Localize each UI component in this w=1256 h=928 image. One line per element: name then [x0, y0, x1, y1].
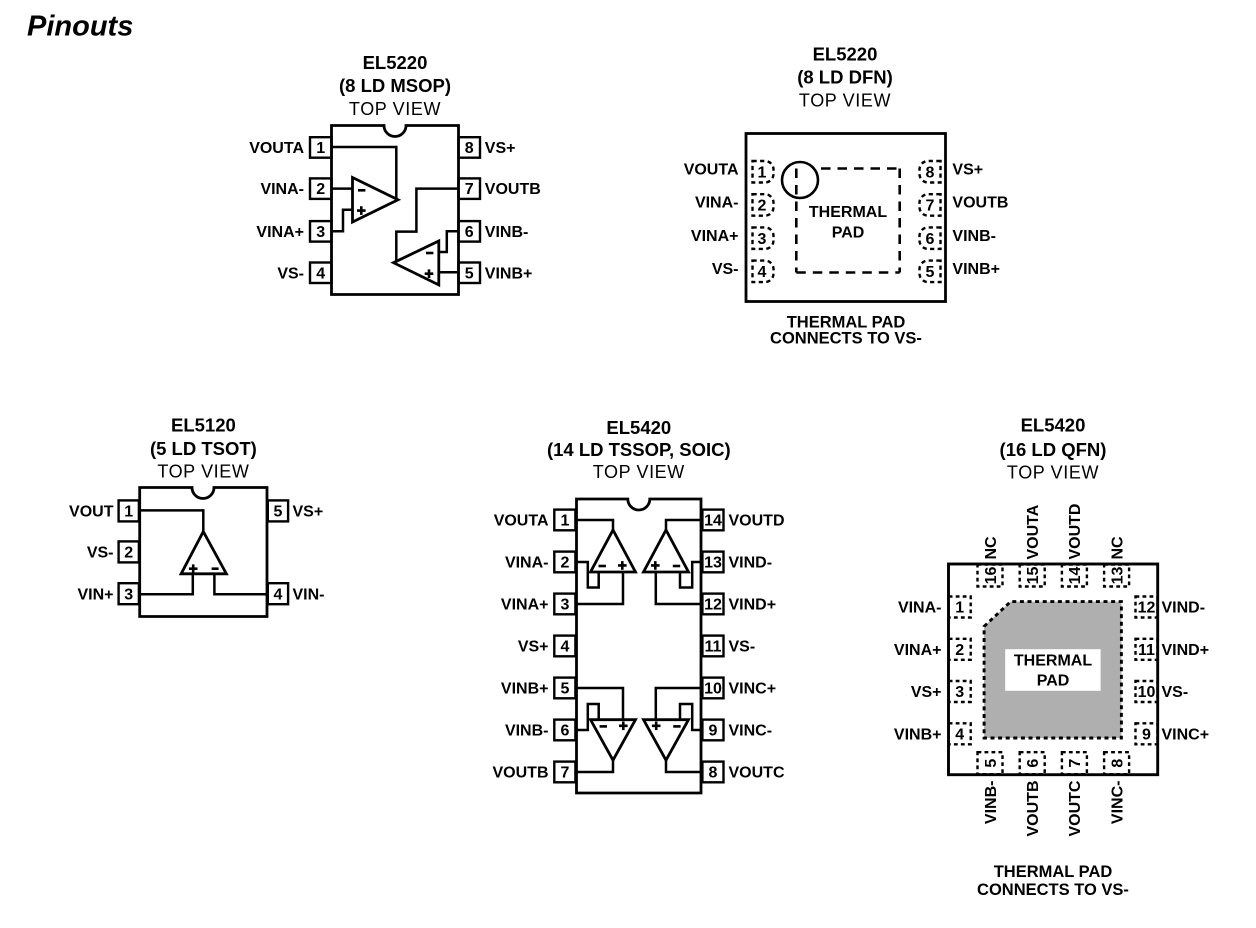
wire pin3 to op-amp A non-inverting input (TSSOP) [577, 573, 624, 604]
wire pin1 to op-amp A output [332, 147, 397, 198]
package U5 EL5420 QFN body [949, 564, 1158, 775]
pin 1 box (TSSOP) [554, 510, 575, 531]
svg-text:VINB+: VINB+ [952, 261, 1000, 278]
pin 6 pad (QFN) [1020, 752, 1045, 774]
svg-text:1: 1 [560, 513, 569, 530]
svg-text:VS-: VS- [729, 639, 756, 656]
svg-text:13: 13 [1109, 567, 1126, 585]
wire pin7 to op-amp B output (TSSOP) [577, 759, 614, 772]
svg-text:VIND-: VIND- [1162, 600, 1206, 617]
pin 2 pad (QFN) [949, 639, 971, 660]
svg-text:VINA+: VINA+ [894, 642, 942, 659]
svg-text:EL5120: EL5120 [171, 415, 236, 436]
svg-text:PAD: PAD [1037, 673, 1070, 690]
svg-text:VINA+: VINA+ [691, 228, 739, 245]
svg-text:8: 8 [926, 165, 935, 182]
svg-text:VS-: VS- [712, 261, 739, 278]
pin 10 box (TSSOP) [702, 678, 723, 699]
pin 4 box (TSSOP) [554, 636, 575, 657]
package U1 EL5220 MSOP body with notch [332, 126, 459, 295]
thermal pad outline bottom edge (DFN) [796, 271, 899, 274]
svg-text:14: 14 [704, 513, 722, 530]
svg-text:EL5420: EL5420 [606, 417, 671, 438]
svg-text:5: 5 [273, 504, 282, 521]
pin 3 box (MSOP) [310, 221, 332, 242]
svg-text:9: 9 [709, 723, 718, 740]
svg-text:1: 1 [955, 600, 964, 617]
svg-text:11: 11 [1138, 642, 1155, 659]
svg-text:2: 2 [316, 181, 325, 198]
svg-text:NC: NC [1109, 536, 1126, 560]
wire pin6 to op-amp B inverting input (TSSOP) [577, 704, 599, 730]
svg-text:VINB-: VINB- [505, 723, 549, 740]
wire pin10 to op-amp C non-inverting input (TSSOP) [656, 688, 701, 719]
wire pin9 to op-amp C inverting input (TSSOP) [680, 704, 701, 730]
svg-text:VOUTD: VOUTD [1067, 504, 1084, 560]
svg-text:VOUTA: VOUTA [249, 140, 304, 157]
op-amp A minus symbol (TSSOP) [599, 565, 606, 568]
svg-text:4: 4 [273, 586, 282, 603]
svg-text:4: 4 [560, 639, 569, 656]
op-amp B triangle (TSSOP) [591, 720, 636, 761]
svg-text:9: 9 [1142, 726, 1151, 743]
wire pin8 to op-amp C output (TSSOP) [666, 759, 701, 772]
pin 8 box (MSOP) [459, 137, 481, 158]
op-amp D plus symbol (TSSOP) [651, 561, 660, 570]
svg-text:8: 8 [465, 140, 474, 157]
svg-text:TOP VIEW: TOP VIEW [799, 91, 891, 111]
pin 10 pad (QFN) [1136, 681, 1158, 702]
svg-text:VS+: VS+ [293, 504, 324, 521]
svg-text:VOUTA: VOUTA [494, 513, 549, 530]
svg-text:VINA-: VINA- [695, 195, 739, 212]
svg-text:1: 1 [758, 165, 767, 182]
pin 9 box (TSSOP) [702, 720, 723, 741]
thermal pad outline left edge (DFN) [795, 169, 798, 273]
package U3 EL5120 TSOT body with notch [140, 488, 267, 617]
op-amp A triangle (TSSOP) [591, 530, 636, 572]
svg-text:VIND+: VIND+ [1162, 642, 1210, 659]
pin 5 box (MSOP) [459, 263, 481, 284]
svg-text:14: 14 [1067, 567, 1084, 585]
svg-text:VINA-: VINA- [505, 555, 549, 572]
thermal pad label box (QFN) [1005, 649, 1100, 691]
svg-text:VINC-: VINC- [1109, 781, 1126, 825]
svg-text:EL5220: EL5220 [813, 44, 878, 65]
pin 5 pad (DFN) [920, 261, 941, 283]
svg-text:10: 10 [1138, 684, 1156, 701]
svg-text:NC: NC [983, 536, 1000, 560]
pin 2 box (MSOP) [310, 178, 332, 199]
svg-text:EL5420: EL5420 [1021, 415, 1086, 436]
svg-text:THERMAL PAD: THERMAL PAD [994, 863, 1113, 881]
svg-text:EL5220: EL5220 [363, 52, 428, 73]
svg-text:CONNECTS TO VS-: CONNECTS TO VS- [770, 330, 922, 348]
op-amp triangle (TSOT) [181, 532, 226, 574]
svg-text:VOUTC: VOUTC [1067, 780, 1084, 836]
svg-text:VINB+: VINB+ [894, 726, 942, 743]
svg-text:PAD: PAD [832, 224, 865, 241]
pin 11 pad (QFN) [1136, 639, 1158, 660]
svg-text:VIN-: VIN- [293, 586, 325, 603]
pin 15 pad (QFN) [1020, 565, 1045, 587]
pin 1 pad (QFN) [949, 597, 971, 618]
svg-text:VOUTC: VOUTC [729, 765, 785, 782]
svg-text:VOUTD: VOUTD [729, 513, 785, 530]
op-amp D triangle (TSSOP) [644, 530, 689, 572]
pin 16 pad (QFN) [978, 565, 1003, 587]
svg-text:6: 6 [926, 231, 935, 248]
svg-text:VINB-: VINB- [485, 224, 529, 241]
svg-text:VS-: VS- [277, 265, 304, 282]
svg-text:7: 7 [465, 181, 474, 198]
pin 6 box (TSSOP) [554, 720, 575, 741]
svg-text:TOP VIEW: TOP VIEW [593, 462, 685, 482]
svg-text:TOP VIEW: TOP VIEW [1007, 463, 1099, 483]
svg-text:7: 7 [1067, 759, 1084, 768]
wire pin5 to op-amp B non-inverting input (TSSOP) [577, 688, 624, 719]
svg-text:VINB-: VINB- [983, 781, 1000, 825]
op-amp D minus symbol (TSSOP) [673, 565, 680, 568]
pin 1 indicator circle (DFN) [782, 162, 818, 198]
svg-text:VS+: VS+ [485, 140, 516, 157]
svg-text:VS-: VS- [1162, 684, 1189, 701]
pin 3 box (TSSOP) [554, 594, 575, 615]
op-amp A minus symbol [358, 189, 365, 192]
svg-text:6: 6 [465, 224, 474, 241]
svg-text:VINB+: VINB+ [501, 681, 549, 698]
svg-text:4: 4 [955, 726, 964, 743]
svg-text:VS+: VS+ [952, 162, 983, 179]
pin 13 pad (QFN) [1104, 565, 1129, 587]
svg-text:VINA+: VINA+ [256, 224, 304, 241]
wire pin13 to op-amp D inverting input (TSSOP) [680, 562, 701, 588]
pin 12 box (TSSOP) [702, 594, 723, 615]
svg-text:VOUTA: VOUTA [1025, 504, 1042, 559]
svg-text:VOUT: VOUT [69, 504, 114, 521]
svg-text:5: 5 [560, 681, 569, 698]
svg-text:VINA+: VINA+ [501, 597, 549, 614]
svg-text:7: 7 [926, 198, 935, 215]
svg-text:TOP VIEW: TOP VIEW [349, 99, 441, 119]
svg-text:3: 3 [124, 586, 133, 603]
pin 4 box (MSOP) [310, 263, 332, 284]
svg-text:VINA-: VINA- [260, 181, 304, 198]
svg-text:VINB-: VINB- [952, 228, 996, 245]
svg-text:VIND-: VIND- [729, 555, 773, 572]
svg-text:12: 12 [1138, 600, 1156, 617]
pin 12 pad (QFN) [1136, 597, 1158, 618]
svg-text:15: 15 [1025, 567, 1042, 585]
thermal pad outline right edge (DFN) [898, 169, 901, 273]
svg-text:2: 2 [758, 198, 767, 215]
wire pin7 to op-amp B output [396, 189, 458, 262]
svg-text:(16 LD QFN): (16 LD QFN) [1000, 439, 1107, 460]
pin 3 pad (DFN) [753, 227, 774, 249]
wire pin3 to op-amp non-inverting input (TSOT) [140, 574, 193, 595]
svg-text:VOUTB: VOUTB [1025, 781, 1042, 837]
pin 1 box (TSOT) [119, 500, 139, 521]
pin 2 box (TSSOP) [554, 552, 575, 573]
svg-text:VIN+: VIN+ [77, 586, 113, 603]
svg-text:6: 6 [1025, 759, 1042, 768]
svg-text:VINC+: VINC+ [1162, 726, 1210, 743]
thermal pad polygon (QFN) [984, 602, 1121, 738]
pin 1 box (MSOP) [310, 137, 332, 158]
svg-text:VOUTB: VOUTB [493, 765, 549, 782]
svg-text:VOUTA: VOUTA [684, 162, 739, 179]
svg-text:2: 2 [124, 545, 133, 562]
wire pin4 to op-amp inverting input (TSOT) [214, 574, 267, 595]
wire pin6 to op-amp B inverting input [439, 231, 459, 252]
svg-text:(5 LD TSOT): (5 LD TSOT) [150, 438, 257, 459]
wire pin2 to op-amp A inverting input [332, 187, 353, 190]
svg-text:11: 11 [705, 639, 722, 656]
op-amp C minus symbol (TSSOP) [673, 725, 680, 728]
svg-text:(14 LD TSSOP, SOIC): (14 LD TSSOP, SOIC) [547, 439, 731, 460]
svg-text:7: 7 [560, 765, 569, 782]
pin 4 pad (QFN) [949, 723, 971, 744]
op-amp plus symbol (TSOT) [189, 564, 198, 573]
pin 13 box (TSSOP) [702, 552, 723, 573]
svg-text:12: 12 [704, 597, 722, 614]
pin 14 box (TSSOP) [702, 510, 723, 531]
svg-text:6: 6 [560, 723, 569, 740]
package U2 EL5220 DFN body [746, 134, 946, 302]
svg-text:13: 13 [704, 555, 722, 572]
op-amp B triangle (MSOP) [394, 241, 439, 285]
pin 5 box (TSOT) [268, 500, 288, 521]
svg-text:1: 1 [316, 140, 325, 157]
pin 3 box (TSOT) [119, 583, 139, 604]
svg-text:VS+: VS+ [518, 639, 549, 656]
svg-text:2: 2 [955, 642, 964, 659]
pin 6 pad (DFN) [920, 227, 941, 249]
svg-text:(8 LD MSOP): (8 LD MSOP) [339, 75, 451, 96]
svg-text:TOP VIEW: TOP VIEW [157, 461, 249, 481]
svg-text:1: 1 [124, 504, 133, 521]
svg-text:5: 5 [926, 264, 935, 281]
pin 5 pad (QFN) [978, 752, 1003, 774]
svg-text:3: 3 [560, 597, 569, 614]
svg-text:16: 16 [983, 567, 1000, 585]
wire pin3 to op-amp A non-inverting input [332, 210, 353, 232]
svg-text:CONNECTS TO VS-: CONNECTS TO VS- [977, 881, 1129, 899]
svg-text:(8 LD DFN): (8 LD DFN) [797, 67, 893, 88]
pin 7 pad (DFN) [920, 194, 941, 216]
svg-text:VINB+: VINB+ [485, 265, 533, 282]
wire pin14 to op-amp D output (TSSOP) [666, 520, 701, 531]
svg-text:THERMAL: THERMAL [1014, 653, 1092, 670]
op-amp B minus symbol (TSSOP) [600, 725, 607, 728]
op-amp minus symbol (TSOT) [212, 567, 219, 570]
pin 1 pad (DFN) [753, 161, 774, 183]
op-amp A plus symbol (TSSOP) [618, 561, 627, 570]
svg-text:8: 8 [1109, 759, 1126, 768]
op-amp C plus symbol (TSSOP) [652, 722, 661, 731]
pin 2 pad (DFN) [753, 194, 774, 216]
svg-text:3: 3 [955, 684, 964, 701]
pin 2 box (TSOT) [119, 541, 139, 562]
pin 11 box (TSSOP) [702, 636, 723, 657]
svg-text:10: 10 [704, 681, 722, 698]
pin 7 pad (QFN) [1062, 752, 1087, 774]
package U4 EL5420 TSSOP body with notch [577, 499, 702, 793]
svg-text:VINC-: VINC- [729, 723, 773, 740]
pin 9 pad (QFN) [1136, 723, 1158, 744]
svg-text:5: 5 [465, 265, 474, 282]
wire pin2 to op-amp A inverting input (TSSOP) [577, 562, 599, 588]
pin 8 box (TSSOP) [702, 762, 723, 783]
wire pin12 to op-amp D non-inverting input (TSSOP) [656, 573, 701, 604]
svg-text:3: 3 [758, 231, 767, 248]
op-amp A plus symbol [357, 206, 366, 215]
pin 6 box (MSOP) [459, 221, 481, 242]
wire pin1 to op-amp output (TSOT) [140, 510, 204, 533]
svg-text:VIND+: VIND+ [729, 597, 777, 614]
svg-text:5: 5 [983, 759, 1000, 768]
op-amp B plus symbol [425, 269, 434, 278]
pin 3 pad (QFN) [949, 681, 971, 702]
op-amp B plus symbol (TSSOP) [619, 722, 628, 731]
svg-text:4: 4 [316, 265, 325, 282]
pin 8 pad (DFN) [920, 161, 941, 183]
op-amp A triangle (MSOP) [353, 178, 399, 223]
svg-text:VOUTB: VOUTB [485, 181, 541, 198]
svg-text:4: 4 [758, 264, 767, 281]
op-amp B minus symbol [426, 252, 433, 255]
wire pin5 to op-amp B non-inverting input [439, 271, 459, 274]
svg-text:VINA-: VINA- [898, 600, 942, 617]
pin 7 box (TSSOP) [554, 762, 575, 783]
wire pin1 to op-amp A output (TSSOP) [577, 520, 614, 531]
svg-text:VINC+: VINC+ [729, 681, 777, 698]
pin 4 box (TSOT) [268, 583, 288, 604]
svg-text:VS-: VS- [87, 545, 114, 562]
svg-text:VOUTB: VOUTB [952, 195, 1008, 212]
pin 14 pad (QFN) [1062, 565, 1087, 587]
thermal pad outline top edge (DFN) [821, 167, 900, 170]
svg-text:THERMAL: THERMAL [809, 204, 887, 221]
pin 7 box (MSOP) [459, 178, 481, 199]
pin 4 pad (DFN) [753, 261, 774, 283]
pin 5 box (TSSOP) [554, 678, 575, 699]
svg-text:Pinouts: Pinouts [27, 11, 133, 43]
pin 8 pad (QFN) [1104, 752, 1129, 774]
svg-text:2: 2 [560, 555, 569, 572]
svg-text:8: 8 [709, 765, 718, 782]
op-amp C triangle (TSSOP) [644, 720, 689, 761]
svg-text:VS+: VS+ [911, 684, 942, 701]
svg-text:3: 3 [316, 224, 325, 241]
